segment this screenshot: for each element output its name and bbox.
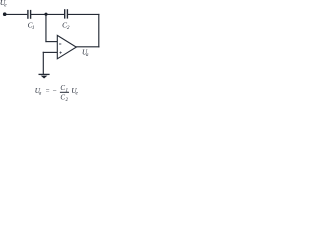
svg-text:a: a <box>39 91 42 97</box>
svg-text:1: 1 <box>32 25 35 31</box>
capacitor C2 <box>65 9 68 18</box>
node: junction dot at inverting input branch <box>44 13 47 16</box>
wire: non-inverting input stub <box>43 51 58 53</box>
wire: inverting input stub <box>45 41 57 43</box>
wire: C1 right plate to junction node <box>31 13 64 15</box>
wire: input Ue to C1 left plate <box>6 13 28 15</box>
formula: Ua = - C1/C2 Ue <box>35 84 79 103</box>
wire: output line from op-amp apex to feedback corner <box>76 46 100 48</box>
node: input terminal dot <box>3 12 7 16</box>
op-amp U1 triangle <box>57 35 76 58</box>
svg-text:e: e <box>76 91 79 97</box>
wire: vertical from junction down to inverting input <box>45 14 47 42</box>
op-amp minus input sign <box>59 43 61 45</box>
capacitor C1 <box>28 10 31 19</box>
op-amp plus input sign <box>60 52 62 54</box>
svg-text:2: 2 <box>67 25 70 31</box>
ground symbol <box>39 74 50 78</box>
svg-text:=: = <box>45 88 50 95</box>
svg-text:a: a <box>86 52 89 58</box>
wire: vertical down to ground <box>42 52 44 75</box>
svg-text:2: 2 <box>66 98 69 101</box>
wire: right vertical feedback drop to output <box>98 14 100 48</box>
svg-text:−: − <box>52 87 57 95</box>
svg-text:e: e <box>4 3 7 9</box>
wire: C2 right plate to top-right corner <box>68 13 100 15</box>
